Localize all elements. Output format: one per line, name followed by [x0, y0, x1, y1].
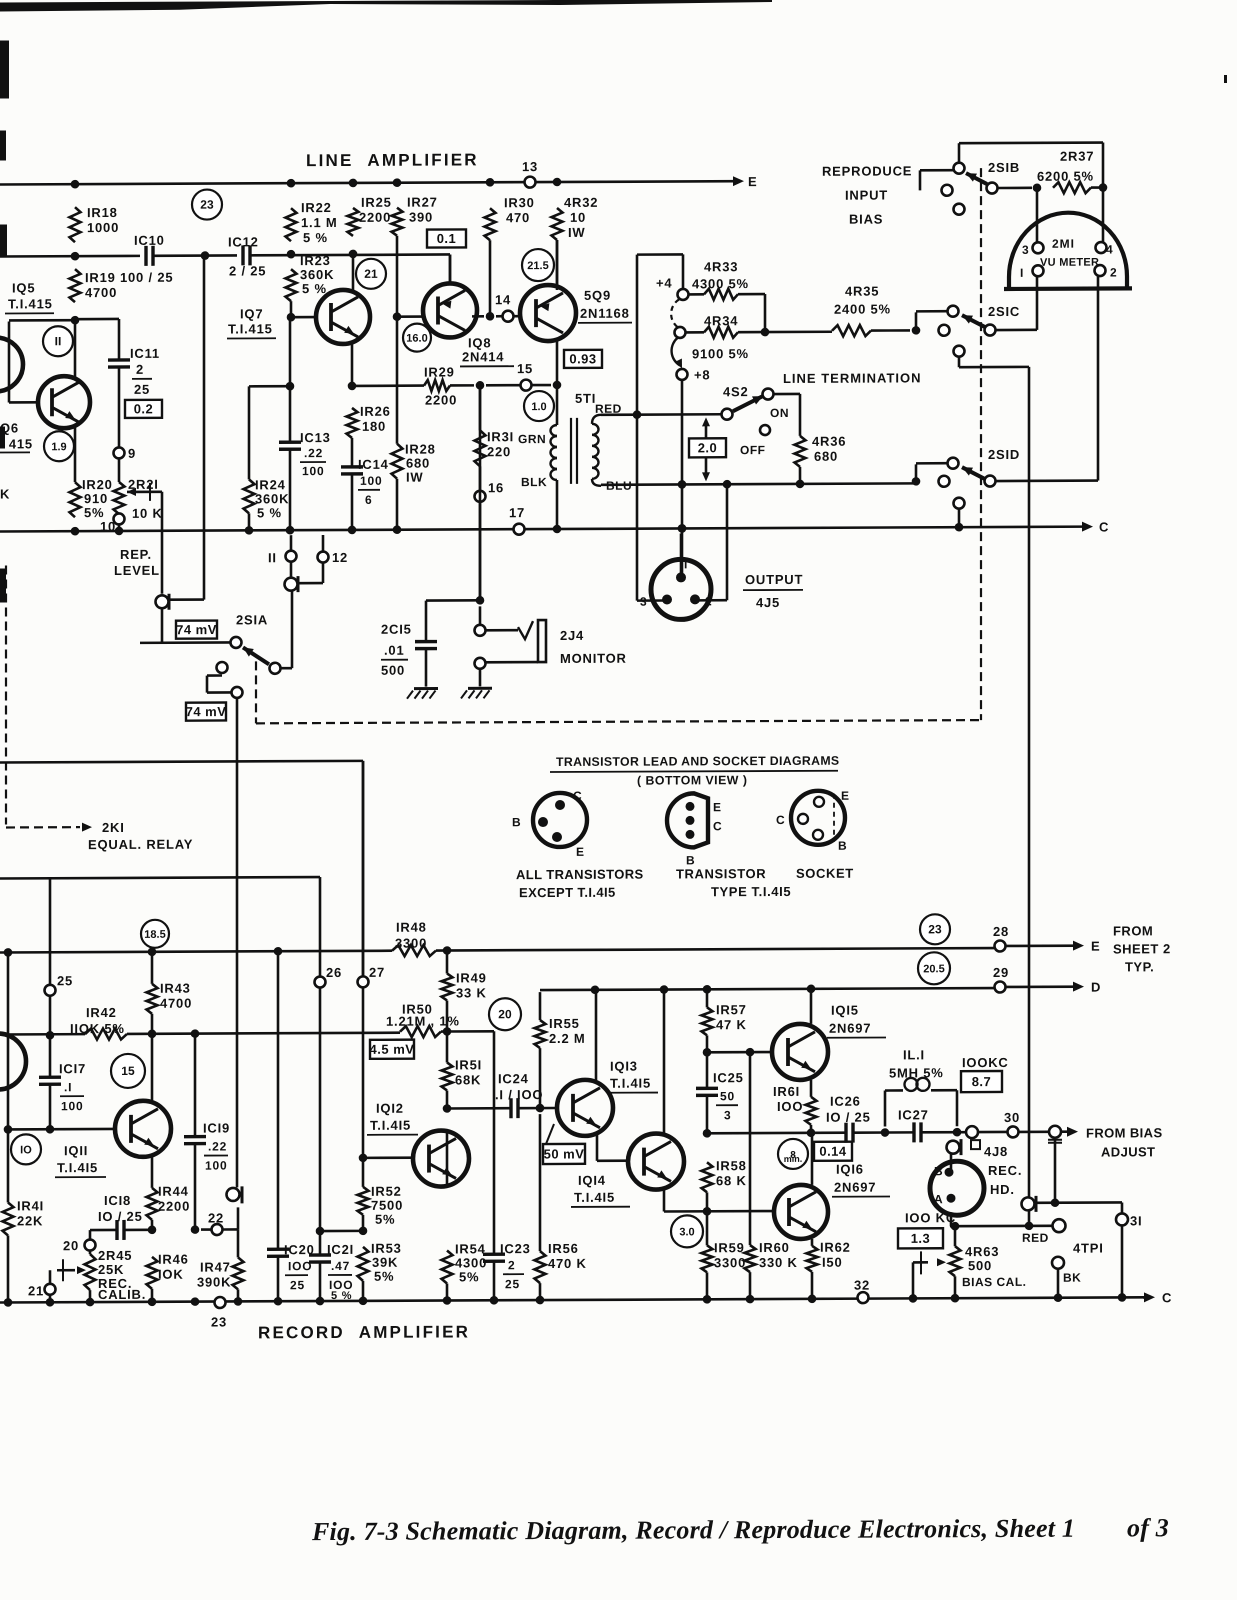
svg-text:BK: BK — [1063, 1271, 1081, 1285]
svg-text:Fig. 7-3 Schematic Diagra: Fig. 7-3 Schematic Diagram, Record / Rep… — [311, 1514, 1075, 1546]
svg-text:IW: IW — [406, 470, 423, 485]
svg-text:IQ7: IQ7 — [240, 306, 263, 321]
svg-text:TRANSISTOR LEAD AND SOCKET DIA: TRANSISTOR LEAD AND SOCKET DIAGRAMS — [556, 754, 839, 769]
svg-text:12: 12 — [332, 550, 348, 565]
svg-text:IQI2: IQI2 — [376, 1101, 404, 1116]
svg-text:IR30: IR30 — [504, 195, 535, 210]
svg-text:2SIA: 2SIA — [236, 612, 268, 627]
svg-text:2SIB: 2SIB — [988, 160, 1020, 175]
svg-text:+4: +4 — [656, 275, 672, 290]
svg-text:E: E — [748, 174, 757, 189]
svg-text:.I: .I — [64, 1080, 72, 1094]
svg-text:FROM: FROM — [1113, 923, 1153, 938]
svg-text:18.5: 18.5 — [144, 929, 165, 941]
svg-text:SOCKET: SOCKET — [796, 866, 854, 881]
svg-text:5Q9: 5Q9 — [584, 288, 611, 303]
svg-text:4R33: 4R33 — [704, 259, 738, 274]
svg-text:E: E — [841, 789, 850, 803]
svg-text:C: C — [1162, 1290, 1172, 1305]
svg-text:E: E — [1091, 939, 1100, 954]
svg-text:4R36: 4R36 — [812, 434, 846, 449]
svg-text:25: 25 — [57, 973, 73, 988]
svg-text:LINE AMPLIFIER: LINE AMPLIFIER — [306, 150, 479, 170]
svg-text:SHEET 2: SHEET 2 — [1113, 941, 1171, 956]
svg-text:TRANSISTOR: TRANSISTOR — [676, 866, 766, 881]
svg-text:IC23: IC23 — [500, 1241, 531, 1256]
svg-text:.01: .01 — [384, 643, 404, 658]
svg-text:5MH 5%: 5MH 5% — [889, 1065, 944, 1080]
svg-text:5%: 5% — [84, 505, 104, 520]
svg-text:IQI5: IQI5 — [831, 1003, 859, 1018]
svg-text:IQ8: IQ8 — [468, 335, 491, 350]
svg-text:2: 2 — [508, 1258, 515, 1272]
svg-text:50 mV: 50 mV — [544, 1146, 585, 1161]
svg-text:IR44: IR44 — [158, 1184, 189, 1199]
svg-text:T.I.4I5: T.I.4I5 — [57, 1160, 98, 1175]
svg-text:IOOKC: IOOKC — [962, 1055, 1009, 1070]
svg-text:IR62: IR62 — [820, 1240, 851, 1255]
svg-text:IO / 25: IO / 25 — [826, 1110, 871, 1125]
svg-text:IQI6: IQI6 — [836, 1162, 864, 1177]
svg-text:EQUAL. RELAY: EQUAL. RELAY — [88, 837, 193, 852]
svg-text:5 %: 5 % — [303, 230, 328, 245]
svg-text:1.3: 1.3 — [911, 1231, 931, 1246]
svg-text:25: 25 — [134, 382, 150, 397]
svg-text:100: 100 — [360, 474, 382, 488]
svg-text:25K: 25K — [98, 1262, 124, 1277]
svg-text:FROM BIAS: FROM BIAS — [1086, 1125, 1163, 1140]
svg-text:.22: .22 — [208, 1139, 227, 1153]
svg-text:4700: 4700 — [85, 285, 117, 300]
svg-text:15: 15 — [517, 361, 533, 376]
svg-text:4R34: 4R34 — [704, 313, 738, 328]
svg-text:29: 29 — [993, 965, 1009, 980]
svg-text:8.7: 8.7 — [972, 1074, 992, 1089]
svg-text:390K: 390K — [197, 1274, 231, 1289]
svg-text:680: 680 — [814, 449, 838, 464]
svg-text:4R35: 4R35 — [845, 284, 879, 299]
svg-text:2R37: 2R37 — [1060, 149, 1094, 164]
svg-text:LINE TERMINATION: LINE TERMINATION — [783, 370, 922, 386]
svg-text:180: 180 — [362, 419, 386, 434]
svg-text:IR20: IR20 — [82, 477, 113, 492]
svg-text:7500: 7500 — [371, 1198, 403, 1213]
svg-text:IR48: IR48 — [396, 920, 427, 935]
svg-text:RED: RED — [1022, 1231, 1049, 1245]
svg-text:ICI7: ICI7 — [59, 1061, 86, 1076]
svg-text:of 3: of 3 — [1127, 1513, 1169, 1542]
svg-text:1.0: 1.0 — [531, 401, 546, 413]
svg-text:IC12: IC12 — [228, 234, 259, 249]
svg-text:IR4I: IR4I — [17, 1198, 44, 1213]
svg-text:MONITOR: MONITOR — [560, 651, 627, 666]
svg-text:IR54: IR54 — [455, 1241, 486, 1256]
svg-text:2N414: 2N414 — [462, 349, 504, 364]
svg-text:3I: 3I — [1130, 1213, 1142, 1228]
svg-text:INPUT: INPUT — [845, 188, 888, 203]
svg-text:21: 21 — [364, 267, 378, 281]
svg-text:IR19: IR19 — [85, 270, 116, 285]
svg-text:20: 20 — [498, 1007, 512, 1021]
svg-text:EXCEPT T.I.4I5: EXCEPT T.I.4I5 — [519, 885, 616, 900]
svg-text:BIAS CAL.: BIAS CAL. — [962, 1275, 1026, 1289]
svg-text:6200 5%: 6200 5% — [1037, 169, 1094, 184]
svg-text:T.I.4I5: T.I.4I5 — [370, 1118, 411, 1133]
svg-text:2CI5: 2CI5 — [381, 622, 412, 637]
svg-text:IIOK 5%: IIOK 5% — [70, 1021, 125, 1036]
svg-text:CALIB.: CALIB. — [98, 1287, 146, 1302]
svg-text:4R32: 4R32 — [564, 195, 598, 210]
svg-text:REPRODUCE: REPRODUCE — [822, 163, 912, 178]
svg-text:360K: 360K — [300, 267, 334, 282]
svg-text:2200: 2200 — [359, 210, 391, 225]
svg-text:IR18: IR18 — [87, 205, 118, 220]
svg-text:IR46: IR46 — [158, 1252, 189, 1267]
svg-text:500: 500 — [381, 663, 405, 678]
svg-text:0.93: 0.93 — [569, 351, 596, 366]
svg-text:30: 30 — [1004, 1110, 1020, 1125]
svg-text:E: E — [713, 800, 722, 814]
svg-text:27: 27 — [369, 965, 385, 980]
svg-text:B: B — [838, 839, 847, 853]
svg-text:9100 5%: 9100 5% — [692, 346, 749, 361]
svg-text:0.14: 0.14 — [819, 1144, 847, 1159]
svg-text:T.I.415: T.I.415 — [228, 321, 273, 336]
svg-text:IOO KC: IOO KC — [905, 1210, 956, 1225]
svg-text:IC27: IC27 — [898, 1107, 929, 1122]
svg-text:4S2: 4S2 — [723, 384, 749, 399]
svg-text:4300: 4300 — [455, 1255, 487, 1270]
svg-text:C: C — [713, 819, 722, 833]
svg-text:2N697: 2N697 — [829, 1021, 871, 1036]
svg-text:RECORD AMPLIFIER: RECORD AMPLIFIER — [258, 1322, 470, 1342]
svg-text:100: 100 — [205, 1158, 227, 1172]
svg-text:3: 3 — [1022, 243, 1029, 257]
svg-text:IQI4: IQI4 — [578, 1173, 606, 1188]
svg-text:3300: 3300 — [395, 936, 427, 951]
svg-text:4R63: 4R63 — [965, 1244, 999, 1259]
svg-text:IR29: IR29 — [424, 364, 455, 379]
svg-text:4.5 mV: 4.5 mV — [370, 1042, 415, 1057]
svg-text:B: B — [686, 853, 695, 867]
svg-text:ICI9: ICI9 — [203, 1120, 230, 1135]
svg-text:2SIC: 2SIC — [988, 304, 1020, 319]
svg-text:68K: 68K — [455, 1072, 481, 1087]
svg-text:ICI8: ICI8 — [104, 1193, 131, 1208]
svg-text:680: 680 — [406, 456, 430, 471]
svg-text:360K: 360K — [255, 491, 289, 506]
svg-text:10: 10 — [570, 210, 586, 225]
svg-text:2400 5%: 2400 5% — [834, 301, 891, 316]
svg-text:IOO: IOO — [288, 1259, 312, 1273]
svg-text:IR23: IR23 — [300, 253, 331, 268]
svg-text:910: 910 — [84, 491, 108, 506]
svg-text:28: 28 — [993, 924, 1009, 939]
svg-text:0.2: 0.2 — [134, 401, 154, 416]
svg-text:22K: 22K — [17, 1213, 43, 1228]
svg-text:IR53: IR53 — [371, 1241, 402, 1256]
svg-text:68 K: 68 K — [716, 1173, 747, 1188]
svg-text:2 / 25: 2 / 25 — [229, 263, 266, 278]
svg-text:1.1 M: 1.1 M — [301, 215, 338, 230]
svg-text:IR27: IR27 — [407, 195, 438, 210]
svg-text:C: C — [573, 789, 582, 803]
svg-text:5%: 5% — [375, 1212, 395, 1227]
svg-text:5TI: 5TI — [575, 391, 596, 406]
svg-text:26: 26 — [326, 965, 342, 980]
svg-text:Q6: Q6 — [0, 420, 19, 435]
svg-text:IC11: IC11 — [130, 346, 160, 361]
svg-text:390: 390 — [409, 210, 433, 225]
svg-text:D: D — [1091, 980, 1100, 995]
svg-text:5%: 5% — [374, 1269, 394, 1284]
svg-text:23: 23 — [200, 198, 214, 212]
svg-text:IR26: IR26 — [360, 404, 391, 419]
svg-text:IC13: IC13 — [300, 430, 331, 445]
svg-text:2.2 M: 2.2 M — [549, 1031, 586, 1046]
svg-text:.22: .22 — [304, 446, 323, 460]
svg-text:I 415: I 415 — [0, 436, 33, 451]
svg-text:100: 100 — [302, 464, 324, 478]
svg-text:IR22: IR22 — [301, 200, 332, 215]
svg-text:5 %: 5 % — [302, 281, 327, 296]
svg-text:IOO: IOO — [777, 1099, 803, 1114]
svg-text:2: 2 — [1110, 265, 1117, 279]
svg-text:IR55: IR55 — [549, 1016, 580, 1031]
svg-text:20.5: 20.5 — [923, 963, 944, 975]
svg-text:ADJUST: ADJUST — [1101, 1144, 1155, 1159]
svg-text:IQ5: IQ5 — [12, 280, 35, 295]
svg-text:33 K: 33 K — [456, 985, 487, 1000]
svg-text:6: 6 — [365, 493, 372, 507]
svg-text:IW: IW — [568, 225, 585, 240]
svg-text:4TPI: 4TPI — [1073, 1241, 1104, 1256]
svg-text:4700: 4700 — [160, 996, 192, 1011]
svg-text:2N697: 2N697 — [834, 1180, 876, 1195]
svg-text:3: 3 — [724, 1108, 731, 1122]
svg-text:100 / 25: 100 / 25 — [120, 270, 173, 285]
svg-text:IR5I: IR5I — [455, 1057, 482, 1072]
svg-text:2R45: 2R45 — [98, 1248, 132, 1263]
svg-text:IR6I: IR6I — [773, 1084, 800, 1099]
svg-text:2J4: 2J4 — [560, 628, 584, 643]
svg-text:IR25: IR25 — [361, 195, 392, 210]
svg-text:VU METER: VU METER — [1040, 257, 1099, 269]
svg-text:IR3I: IR3I — [487, 429, 514, 444]
svg-text:47 K: 47 K — [716, 1017, 747, 1032]
svg-text:3.0: 3.0 — [679, 1226, 694, 1238]
svg-text:IR42: IR42 — [86, 1005, 117, 1020]
svg-text:IR47: IR47 — [200, 1259, 231, 1274]
svg-text:.I / IOO: .I / IOO — [495, 1087, 543, 1102]
svg-text:2: 2 — [136, 362, 144, 377]
svg-text:2.0: 2.0 — [698, 440, 718, 455]
svg-text:IOK: IOK — [158, 1267, 184, 1282]
svg-text:25: 25 — [505, 1277, 520, 1291]
svg-text:2200: 2200 — [425, 392, 457, 407]
svg-text:20: 20 — [63, 1238, 79, 1253]
svg-text:16.0: 16.0 — [406, 333, 427, 345]
svg-text:0.1: 0.1 — [437, 231, 457, 246]
svg-text:100: 100 — [61, 1099, 83, 1113]
svg-text:2N1168: 2N1168 — [580, 306, 630, 321]
svg-text:10 K: 10 K — [132, 506, 163, 521]
svg-text:IR43: IR43 — [160, 981, 191, 996]
svg-text:ALL TRANSISTORS: ALL TRANSISTORS — [516, 867, 644, 883]
svg-text:REC.: REC. — [988, 1163, 1022, 1178]
svg-text:IL.I: IL.I — [903, 1047, 925, 1062]
svg-text:21: 21 — [28, 1283, 44, 1298]
svg-text:5 %: 5 % — [257, 505, 282, 520]
svg-text:BLK: BLK — [521, 475, 547, 489]
svg-text:A: A — [934, 1192, 943, 1206]
svg-text:22: 22 — [208, 1210, 224, 1225]
svg-text:TYP.: TYP. — [1125, 959, 1154, 974]
svg-text:IC2I: IC2I — [327, 1242, 354, 1257]
svg-text:21.5: 21.5 — [527, 260, 548, 272]
svg-text:GRN: GRN — [518, 432, 546, 446]
svg-text:IR24: IR24 — [255, 477, 286, 492]
svg-text:I: I — [1020, 266, 1024, 280]
svg-text:2200: 2200 — [158, 1199, 190, 1214]
svg-text:23: 23 — [211, 1314, 227, 1329]
svg-text:I50: I50 — [822, 1255, 842, 1270]
svg-text:C: C — [1099, 520, 1109, 535]
svg-text:14: 14 — [495, 292, 511, 307]
svg-text:K: K — [0, 486, 10, 501]
svg-text:15: 15 — [121, 1064, 135, 1078]
svg-text:T.I.415: T.I.415 — [8, 296, 53, 311]
svg-text:3: 3 — [640, 595, 647, 609]
svg-text:9: 9 — [128, 446, 136, 461]
svg-text:LEVEL: LEVEL — [114, 563, 160, 578]
svg-text:IC26: IC26 — [830, 1094, 861, 1109]
svg-text:3300: 3300 — [714, 1255, 746, 1270]
svg-text:.47: .47 — [331, 1259, 350, 1273]
svg-text:2KI: 2KI — [102, 820, 125, 835]
svg-text:4J8: 4J8 — [984, 1144, 1008, 1159]
svg-text:B: B — [512, 815, 521, 829]
svg-text:25: 25 — [290, 1278, 305, 1292]
svg-text:IQI3: IQI3 — [610, 1059, 638, 1074]
svg-text:IO / 25: IO / 25 — [98, 1209, 143, 1224]
svg-text:5%: 5% — [459, 1269, 479, 1284]
svg-text:min.: min. — [784, 1154, 803, 1164]
svg-text:I: I — [684, 557, 688, 571]
svg-text:BIAS: BIAS — [849, 212, 883, 227]
svg-text:32: 32 — [854, 1278, 870, 1293]
svg-text:4: 4 — [1106, 242, 1113, 256]
svg-text:C: C — [776, 813, 785, 827]
svg-text:E: E — [576, 845, 585, 859]
svg-text:IC24: IC24 — [498, 1071, 529, 1086]
svg-text:OFF: OFF — [740, 443, 765, 457]
svg-text:IR57: IR57 — [716, 1002, 747, 1017]
svg-text:IR49: IR49 — [456, 970, 487, 985]
svg-text:ON: ON — [770, 406, 789, 420]
svg-text:( BOTTOM VIEW ): ( BOTTOM VIEW ) — [637, 773, 747, 787]
svg-text:13: 13 — [522, 159, 538, 174]
svg-text:TYPE T.I.4I5: TYPE T.I.4I5 — [711, 884, 791, 899]
svg-text:4J5: 4J5 — [756, 595, 780, 610]
svg-text:IR28: IR28 — [405, 442, 436, 457]
svg-text:IC25: IC25 — [713, 1070, 744, 1085]
svg-text:2: 2 — [705, 594, 712, 608]
svg-text:IO: IO — [20, 1144, 32, 1156]
svg-text:500: 500 — [968, 1258, 992, 1273]
svg-text:+8: +8 — [694, 367, 710, 382]
svg-text:II: II — [268, 550, 277, 565]
svg-text:IR56: IR56 — [548, 1241, 579, 1256]
svg-text:II: II — [55, 334, 62, 348]
svg-text:16: 16 — [488, 480, 504, 495]
svg-text:74 mV: 74 mV — [186, 704, 227, 719]
svg-text:IR60: IR60 — [759, 1240, 790, 1255]
svg-text:470 K: 470 K — [548, 1256, 587, 1271]
svg-text:IC10: IC10 — [134, 233, 165, 248]
svg-text:REP.: REP. — [120, 547, 152, 562]
svg-text:4300 5%: 4300 5% — [692, 276, 749, 291]
svg-text:T.I.4I5: T.I.4I5 — [574, 1190, 615, 1205]
svg-text:IR52: IR52 — [371, 1184, 402, 1199]
svg-text:39K: 39K — [372, 1255, 398, 1270]
svg-text:50: 50 — [720, 1089, 735, 1103]
svg-text:HD.: HD. — [990, 1182, 1015, 1197]
svg-text:2MI: 2MI — [1052, 237, 1075, 251]
svg-text:IC14: IC14 — [358, 457, 389, 472]
svg-text:B: B — [934, 1164, 943, 1178]
svg-text:220: 220 — [487, 444, 511, 459]
svg-text:1.9: 1.9 — [51, 441, 66, 453]
svg-text:IQII: IQII — [64, 1143, 88, 1158]
svg-text:IR59: IR59 — [714, 1240, 745, 1255]
svg-text:470: 470 — [506, 210, 530, 225]
svg-text:IR58: IR58 — [716, 1158, 747, 1173]
svg-text:T.I.4I5: T.I.4I5 — [610, 1076, 651, 1091]
svg-text:330 K: 330 K — [759, 1255, 798, 1270]
svg-text:1000: 1000 — [87, 220, 119, 235]
svg-text:1.21M , 1%: 1.21M , 1% — [386, 1013, 460, 1028]
svg-text:2SID: 2SID — [988, 447, 1020, 462]
svg-text:OUTPUT: OUTPUT — [745, 572, 803, 587]
svg-text:17: 17 — [509, 505, 525, 520]
svg-text:74 mV: 74 mV — [176, 622, 217, 637]
svg-text:23: 23 — [928, 922, 942, 936]
